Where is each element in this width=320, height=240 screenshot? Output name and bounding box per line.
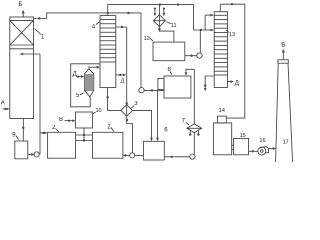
wire mixer 11 outlet into tank 12 <box>158 27 174 42</box>
node Д (air inlet to bunker 5) <box>73 72 85 78</box>
label 4 <box>92 22 100 31</box>
svg-text:7: 7 <box>182 119 186 125</box>
svg-text:11: 11 <box>171 23 177 29</box>
wire column 4 lower side outlet (node Д) <box>116 74 126 85</box>
wire vessel1 top to column 4 top area <box>34 12 142 20</box>
svg-text:15: 15 <box>240 133 246 139</box>
wire tank 12 outlet to pump 12a <box>185 55 197 57</box>
label 11 <box>167 22 177 29</box>
label 9 <box>12 133 18 140</box>
svg-text:8: 8 <box>168 67 172 73</box>
node Д (column 13 bottom outlet) <box>228 80 239 86</box>
wire pump 12a riser to column 13 feed line <box>199 30 201 53</box>
wire furnace 15 to fan 16 <box>249 150 258 152</box>
svg-text:12: 12 <box>144 36 150 42</box>
wire column 13 top line down to tank 14 <box>220 3 245 118</box>
pump 9a (circle) <box>34 152 39 157</box>
svg-text:Б: Б <box>281 41 285 48</box>
wire bunker 5 outlet into column 4 <box>89 66 100 69</box>
wire column 4 upper side outlet down to mixer 3 <box>116 26 128 105</box>
wire riser from pump to vessel 1 internal duct <box>20 53 40 155</box>
svg-text:3: 3 <box>134 101 138 107</box>
wire collector 2 to pump 8a to tank 6 <box>123 154 143 156</box>
wire down to pump 7 <box>140 13 142 88</box>
label 5 <box>76 93 84 99</box>
svg-text:13: 13 <box>229 32 235 38</box>
collector 2 (left) <box>48 132 76 158</box>
wire duct from column 4 left side down around bunker <box>71 64 100 107</box>
svg-text:4: 4 <box>92 25 96 31</box>
label 8 <box>168 67 173 75</box>
furnace 15 <box>232 138 249 154</box>
mixer 7 (diamond with cross) <box>187 124 202 136</box>
svg-text:17: 17 <box>283 140 289 146</box>
wire mixer 3 right outlet down into tank 6 <box>133 110 153 141</box>
svg-text:6: 6 <box>164 128 168 134</box>
label 10 <box>93 108 102 114</box>
fan 16 (blower) <box>258 147 269 155</box>
svg-text:Д: Д <box>73 72 77 78</box>
node А (inlet to vessel 1) <box>1 101 10 111</box>
label 12 <box>144 36 153 42</box>
label 7 <box>182 119 189 125</box>
wire transfer lines between collectors <box>76 135 93 141</box>
svg-text:9: 9 <box>12 133 16 139</box>
label 2 (left) <box>52 125 59 132</box>
wire arrow from unit 8 jacket into tank 6 <box>156 90 159 141</box>
vessel 1 (scrubber) <box>10 17 34 119</box>
mixer 3 (diamond with cross) <box>121 105 133 116</box>
node В (inlet to tank 10) <box>59 117 76 123</box>
wire column 13 bottom-left drain <box>204 76 214 92</box>
wire column 4 bottom outlet to mixer 3 <box>106 88 121 111</box>
mixer 11 (diamond with cross) <box>153 5 165 27</box>
wire pump 7 outlet to unit 8 <box>144 89 164 91</box>
collector 2 (right) <box>92 132 123 158</box>
node Б (top outlet of vessel 1) <box>19 2 25 17</box>
unit 8 (reactor with side pocket) <box>158 76 191 98</box>
column 4 (tray column) <box>100 16 116 88</box>
wire tank 9 to pump 9a <box>28 153 34 155</box>
pump 8a (circle) <box>130 153 135 158</box>
pump 7 (circle) <box>139 88 144 93</box>
svg-text:14: 14 <box>219 108 225 114</box>
wire feed header into column 13 <box>205 14 214 32</box>
node Б (stack top outlet) <box>281 41 285 60</box>
pump 12a (circle) <box>197 53 202 58</box>
tank 6 <box>143 141 164 160</box>
stack 17 (chimney) <box>276 60 293 162</box>
wire mixer 3 bottom outlet down to pump 8a <box>126 116 133 153</box>
column 13 (tray column) <box>214 12 227 88</box>
tank 12 <box>153 42 185 61</box>
bunker 5 (shaded hopper) <box>84 69 93 97</box>
svg-text:5: 5 <box>76 93 80 99</box>
svg-text:В: В <box>59 117 63 123</box>
label 1 <box>35 29 46 41</box>
tank 9 <box>15 141 28 159</box>
wire tank 6 outlet to pump 8b <box>164 156 190 158</box>
svg-text:Д: Д <box>235 80 239 86</box>
svg-text:Д: Д <box>121 79 125 85</box>
tank 10 <box>76 112 93 128</box>
wire spray arrows into mixer 11 <box>154 8 166 17</box>
wire fan 16 to stack 17 <box>268 147 276 149</box>
pump 8b (circle) <box>190 154 195 159</box>
svg-text:10: 10 <box>96 108 102 114</box>
wire feed arrow into unit 8 and line down through mixer 7 <box>185 69 195 154</box>
svg-text:А: А <box>1 101 5 107</box>
wire vessel 1 bottom to tank 9 <box>22 119 24 142</box>
label 13 <box>226 30 235 38</box>
svg-text:1: 1 <box>41 35 45 41</box>
svg-text:2: 2 <box>52 125 56 131</box>
svg-text:16: 16 <box>259 138 265 144</box>
svg-text:Б: Б <box>19 2 23 8</box>
label 2 (right) <box>107 125 114 132</box>
wire tank 10 down to collectors 2 <box>83 128 85 142</box>
tank 14 (with neck) <box>213 116 231 155</box>
wire branch into collector 2 <box>40 132 48 135</box>
wire column 4 riser and top gas line <box>107 3 206 31</box>
label 3 <box>131 101 138 108</box>
